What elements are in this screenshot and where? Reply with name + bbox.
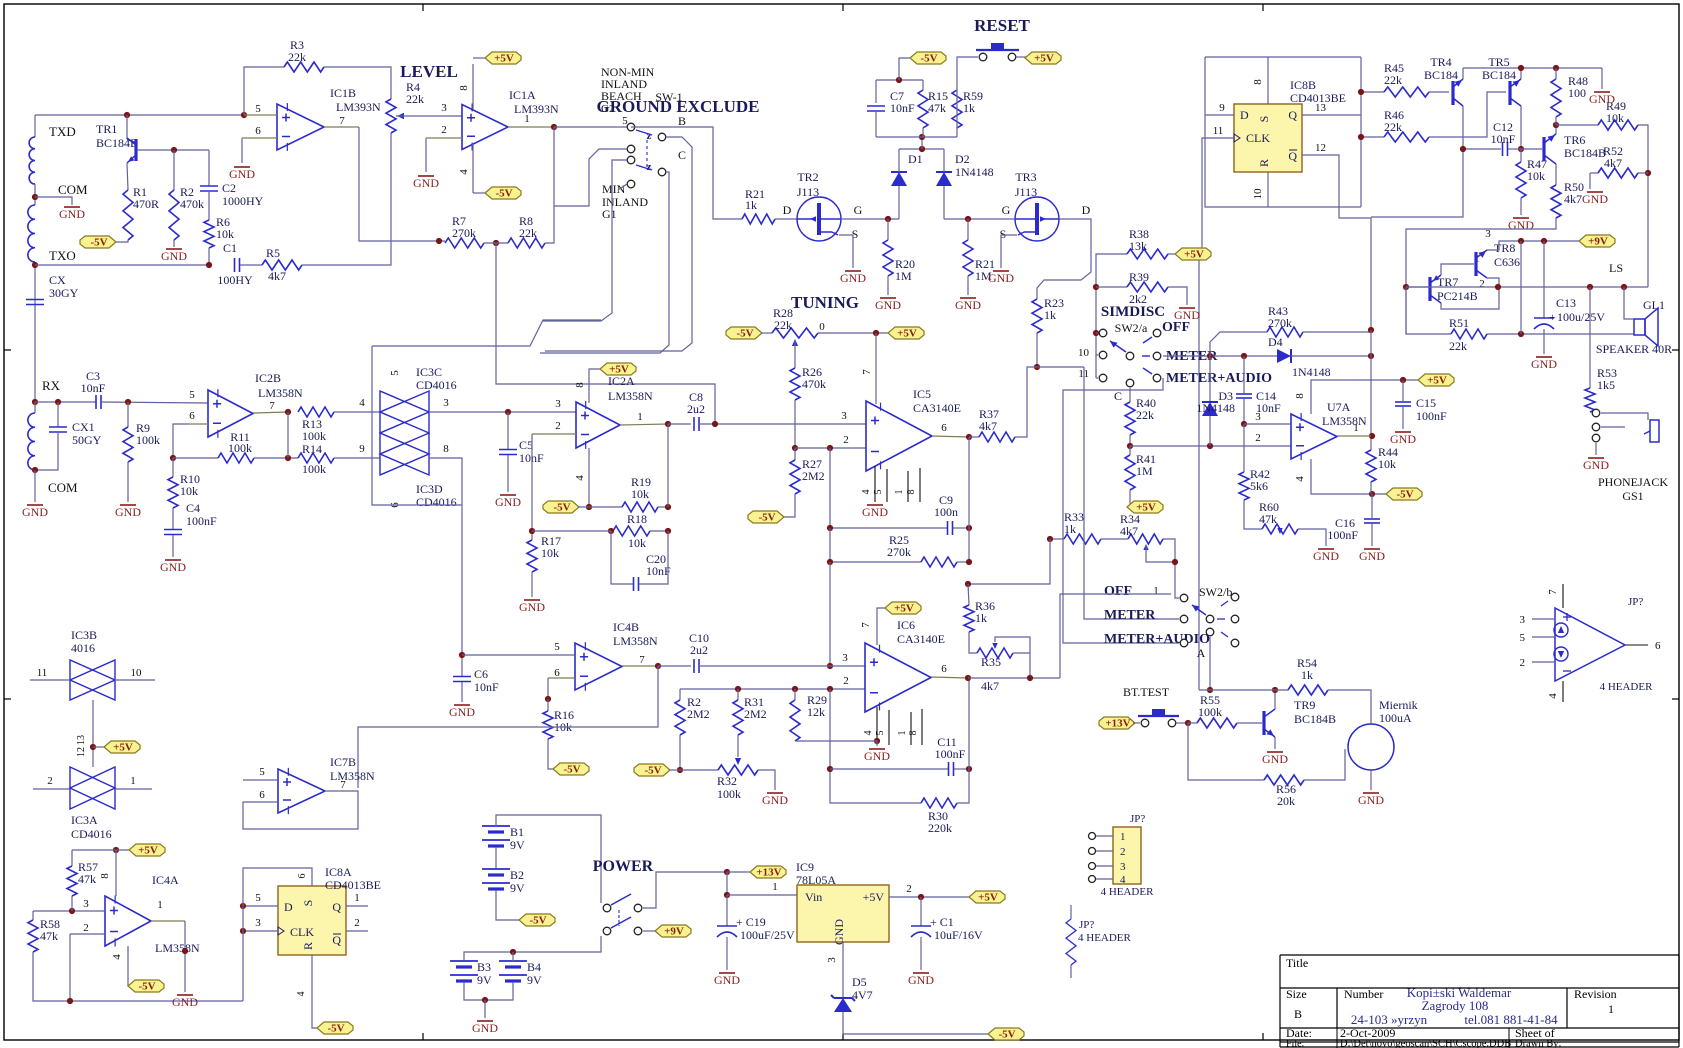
svg-text:5: 5 xyxy=(255,103,261,115)
svg-text:12: 12 xyxy=(76,747,87,757)
wire IC2A pin8 +5V xyxy=(589,369,601,403)
wire R31 to R32 wiper xyxy=(737,735,739,757)
svg-text:TXD: TXD xyxy=(49,124,76,139)
power flag +13V xyxy=(1099,717,1135,729)
svg-text:BC184: BC184 xyxy=(1424,68,1458,82)
svg-text:MIN: MIN xyxy=(602,182,626,196)
IC6 pins 4 5 1 8 xyxy=(876,707,878,741)
svg-text:D: D xyxy=(1240,108,1249,122)
svg-text:B4: B4 xyxy=(527,960,541,974)
svg-text:220k: 220k xyxy=(928,821,952,835)
svg-text:JP?: JP? xyxy=(1079,919,1094,931)
svg-text:C1: C1 xyxy=(223,241,237,255)
switch SW2a pole xyxy=(1126,352,1134,360)
svg-text:5: 5 xyxy=(389,370,401,376)
svg-text:11: 11 xyxy=(1213,125,1224,137)
capacitor C14 10nF xyxy=(1243,356,1245,393)
wire IC4B out xyxy=(622,665,658,667)
wire IC1A pin4 to -5V xyxy=(472,144,474,193)
resistor R17 10k xyxy=(531,531,533,540)
svg-text:C5: C5 xyxy=(519,438,533,452)
resistor R2 470k xyxy=(173,150,175,190)
wire -5V to node xyxy=(899,58,912,80)
svg-text:IC2A: IC2A xyxy=(608,374,635,388)
svg-text:100uF/25V: 100uF/25V xyxy=(740,928,795,942)
resistor R21 1M xyxy=(967,219,969,240)
resistor R1 470R xyxy=(123,190,133,240)
capacitor C6 10nF xyxy=(453,676,471,678)
IC IC8A CD4013BE xyxy=(278,886,346,955)
svg-text:470k: 470k xyxy=(180,197,204,211)
svg-text:100nF: 100nF xyxy=(186,514,217,528)
op-amp U7A LM358N xyxy=(1291,414,1337,459)
svg-text:1000HY: 1000HY xyxy=(222,194,264,208)
wire TR6 collector down xyxy=(1555,164,1557,185)
svg-text:12: 12 xyxy=(1315,142,1326,154)
wire COM row xyxy=(34,184,36,205)
svg-text:4: 4 xyxy=(359,397,365,409)
svg-text:47k: 47k xyxy=(78,872,96,886)
ground C19 xyxy=(726,937,728,970)
svg-text:7: 7 xyxy=(1547,589,1559,595)
junction xyxy=(529,528,535,534)
svg-text:5: 5 xyxy=(554,641,560,653)
junction xyxy=(171,147,177,153)
wire R50 bottom loop to TR7 base xyxy=(1406,218,1556,334)
wire TR3 source to GND xyxy=(1001,235,1017,268)
wire TR2 gate row xyxy=(841,218,899,220)
svg-text:LS: LS xyxy=(1609,261,1623,275)
wire R7R8 junction down to C8 node xyxy=(496,243,715,424)
wire R21 to TR2 drain xyxy=(775,218,797,220)
wire IC1B pin6 from GND xyxy=(241,138,243,163)
power flag +9V xyxy=(655,925,691,937)
wire IC5 output xyxy=(932,436,969,437)
svg-text:GND: GND xyxy=(714,973,740,987)
resistor R33 1k xyxy=(1050,538,1064,540)
svg-text:J113: J113 xyxy=(797,185,819,199)
power flag -5V xyxy=(1386,488,1422,500)
svg-text:GND: GND xyxy=(1358,793,1384,807)
svg-text:4: 4 xyxy=(574,475,586,481)
svg-text:1N4148: 1N4148 xyxy=(955,165,994,179)
wire IC4A pin4 -5V xyxy=(127,946,129,986)
capacitor C11 100nF xyxy=(830,768,948,770)
svg-text:270k: 270k xyxy=(887,545,911,559)
svg-text:5: 5 xyxy=(255,892,261,904)
svg-text:D4: D4 xyxy=(1268,335,1283,349)
svg-text:8: 8 xyxy=(908,731,919,736)
svg-text:-5V: -5V xyxy=(920,53,937,65)
wire TR8 collector to +9V row xyxy=(1487,241,1580,250)
svg-text:2M2: 2M2 xyxy=(687,707,710,721)
power flag -5V xyxy=(634,764,670,776)
power flag -5V xyxy=(543,501,579,513)
svg-text:C: C xyxy=(678,148,686,162)
svg-text:1: 1 xyxy=(772,881,778,893)
svg-text:Title: Title xyxy=(1286,956,1308,970)
svg-text:S: S xyxy=(301,900,315,907)
LS row xyxy=(1406,286,1648,288)
capacitor C2 1000HY xyxy=(208,150,210,186)
svg-text:2: 2 xyxy=(1255,432,1261,444)
wire R26 to minus row xyxy=(794,400,796,448)
resistor R8 22k xyxy=(508,238,545,248)
wire C10 to IC6 pin3 xyxy=(699,665,865,667)
capacitor C12 10nF xyxy=(1463,148,1501,150)
svg-text:4k7: 4k7 xyxy=(979,419,997,433)
svg-text:LM358N: LM358N xyxy=(613,634,658,648)
svg-text:22k: 22k xyxy=(1449,339,1467,353)
power flag -5V xyxy=(726,327,762,339)
svg-text:JP?: JP? xyxy=(1628,596,1643,608)
wire IC1A pin2 from GND xyxy=(425,138,427,172)
svg-text:100k: 100k xyxy=(1198,705,1222,719)
svg-text:4k7: 4k7 xyxy=(1564,192,1582,206)
svg-text:50GY: 50GY xyxy=(72,433,102,447)
svg-text:100nF: 100nF xyxy=(1416,409,1447,423)
svg-text:2: 2 xyxy=(906,883,912,895)
svg-text:-5V: -5V xyxy=(1396,489,1413,501)
ground top rail xyxy=(1601,68,1603,89)
resistor R54 1k xyxy=(1288,685,1328,695)
resistor R39 2k2 xyxy=(1096,286,1127,288)
svg-text:3: 3 xyxy=(441,102,447,114)
wire pole B down xyxy=(545,137,692,351)
resistor R2 2M2 xyxy=(679,689,681,700)
svg-text:OFF: OFF xyxy=(1162,320,1190,335)
svg-text:GND: GND xyxy=(1359,549,1385,563)
svg-text:LM358N: LM358N xyxy=(1322,414,1367,428)
svg-text:+13V: +13V xyxy=(756,867,781,879)
ground C5 xyxy=(507,455,509,492)
svg-text:2M2: 2M2 xyxy=(744,707,767,721)
svg-text:+ C1: + C1 xyxy=(930,915,954,929)
svg-text:9V: 9V xyxy=(477,973,492,987)
svg-text:10: 10 xyxy=(1078,347,1090,359)
wire feedback xyxy=(287,412,289,458)
wire R5 to R4 bottom xyxy=(302,133,391,265)
wire TR1 base node xyxy=(137,149,209,151)
svg-text:5: 5 xyxy=(875,731,886,736)
svg-text:100u/25V: 100u/25V xyxy=(1557,310,1605,324)
IC8B loop wiring xyxy=(1205,56,1361,58)
ground C13 xyxy=(1543,329,1545,354)
svg-text:4: 4 xyxy=(863,731,874,736)
ground COM xyxy=(64,206,80,208)
svg-text:24-103 »yrzyn: 24-103 »yrzyn xyxy=(1351,1012,1428,1027)
svg-text:D2: D2 xyxy=(955,152,970,166)
capacitor C13 100u/25V xyxy=(1543,241,1545,318)
svg-text:8: 8 xyxy=(574,382,586,388)
svg-text:10: 10 xyxy=(131,667,143,679)
svg-text:C4: C4 xyxy=(186,501,200,515)
wire R3 to R4 top xyxy=(324,67,391,99)
svg-text:10nF: 10nF xyxy=(474,680,499,694)
wire IC8A pin5 D xyxy=(243,905,278,907)
switch SW2a right contacts xyxy=(1153,329,1161,337)
svg-text:CX: CX xyxy=(49,273,66,287)
svg-text:+9V: +9V xyxy=(1588,236,1608,248)
junction xyxy=(965,216,971,222)
svg-text:4: 4 xyxy=(458,169,470,175)
svg-text:BC184B: BC184B xyxy=(1564,146,1606,160)
svg-text:470k: 470k xyxy=(802,377,826,391)
ground R32 xyxy=(767,792,783,794)
capacitor C8 2u2 xyxy=(693,417,695,431)
svg-text:LM358N: LM358N xyxy=(155,941,200,955)
svg-text:-5V: -5V xyxy=(736,328,753,340)
svg-text:Size: Size xyxy=(1286,987,1307,1001)
wire IC2A output xyxy=(620,424,668,425)
svg-text:z: z xyxy=(647,161,652,173)
resistor R6 10k xyxy=(208,191,210,220)
svg-text:7: 7 xyxy=(861,369,873,375)
power flag +5V xyxy=(600,363,636,375)
capacitor C1 10uF/16V xyxy=(920,897,922,926)
resistor R36 1k xyxy=(968,584,969,605)
resistor R7 270k xyxy=(358,240,360,242)
svg-text:4 HEADER: 4 HEADER xyxy=(1078,932,1132,944)
wire minus chain down to IC6 pin3 xyxy=(829,562,831,666)
svg-text:270k: 270k xyxy=(1268,316,1292,330)
ground C1 xyxy=(920,937,922,970)
svg-text:R39: R39 xyxy=(1129,270,1149,284)
wire IC3C output pin3 xyxy=(429,411,576,413)
svg-text:+5V: +5V xyxy=(1034,53,1054,65)
svg-text:G1: G1 xyxy=(602,207,617,221)
wire R23 down xyxy=(1036,333,1038,367)
svg-text:GND: GND xyxy=(832,919,846,945)
wire R39 to GND xyxy=(1168,287,1187,305)
svg-text:100k: 100k xyxy=(302,462,326,476)
svg-text:R14: R14 xyxy=(302,442,322,456)
wire LS to R53 xyxy=(1589,287,1591,388)
svg-text:C2: C2 xyxy=(222,181,236,195)
svg-text:10k: 10k xyxy=(1378,457,1396,471)
wire +5V to IC4A pin8 xyxy=(115,850,117,896)
switch SW-1 contact G1 xyxy=(627,180,635,188)
wire TR9 emitter to GND xyxy=(1274,737,1276,749)
title block xyxy=(1280,954,1679,956)
wire R34 wiper down xyxy=(1146,545,1175,562)
svg-text:CA3140E: CA3140E xyxy=(897,632,945,646)
switch POWER xyxy=(603,904,611,912)
svg-text:22k: 22k xyxy=(774,318,792,332)
svg-text:IC4A: IC4A xyxy=(152,873,179,887)
svg-text:IC3D: IC3D xyxy=(416,482,443,496)
wire long verticals to SW2b xyxy=(1084,367,1179,619)
ground R9 xyxy=(127,462,129,502)
svg-text:IC9: IC9 xyxy=(796,860,814,874)
wire R21 input from IC1A net xyxy=(631,127,742,219)
resistor R48 100 xyxy=(1555,68,1557,79)
svg-text:R51: R51 xyxy=(1449,316,1469,330)
svg-text:TR9: TR9 xyxy=(1294,698,1315,712)
svg-text:2: 2 xyxy=(1520,657,1526,669)
wire IC4B pin6 xyxy=(548,677,575,679)
svg-text:GND: GND xyxy=(1390,432,1416,446)
svg-text:2: 2 xyxy=(1120,846,1126,858)
op-amp IC6 CA3140E xyxy=(865,643,931,712)
pushbutton BT.TEST xyxy=(1133,722,1140,724)
svg-text:6: 6 xyxy=(255,125,261,137)
wire TR3 gate row xyxy=(944,218,1015,220)
svg-text:COM: COM xyxy=(48,480,78,495)
svg-text:Q: Q xyxy=(332,900,341,914)
svg-text:10k: 10k xyxy=(631,487,649,501)
svg-text:GND: GND xyxy=(1262,752,1288,766)
svg-text:100nF: 100nF xyxy=(935,747,966,761)
svg-text:PC214B: PC214B xyxy=(1437,289,1478,303)
node top-left row to IC1B pin5 xyxy=(35,114,244,116)
junction xyxy=(827,445,833,451)
wire R56 right up xyxy=(1304,749,1345,780)
svg-text:4: 4 xyxy=(861,490,872,495)
wire IC2B pin6 xyxy=(188,423,208,425)
resistor R42 5k6 xyxy=(1243,424,1245,472)
svg-text:Q: Q xyxy=(1288,149,1297,163)
svg-text:+5V: +5V xyxy=(494,53,514,65)
svg-text:1k: 1k xyxy=(1064,522,1076,536)
wire IC9 out to +5V xyxy=(889,896,970,898)
svg-text:LEVEL: LEVEL xyxy=(400,62,458,81)
svg-text:12k: 12k xyxy=(807,705,825,719)
svg-text:6: 6 xyxy=(1655,640,1661,652)
svg-text:10k: 10k xyxy=(1606,111,1624,125)
resistor R57 47k xyxy=(71,850,73,866)
wire C3 to IC2B pin5 xyxy=(101,402,208,403)
svg-text:LM393N: LM393N xyxy=(336,100,381,114)
svg-text:C: C xyxy=(1114,389,1122,403)
svg-text:-5V: -5V xyxy=(998,1029,1015,1041)
svg-text:Revision: Revision xyxy=(1574,987,1617,1001)
wire TR8 emitter to LS row xyxy=(1487,278,1499,287)
resistor R38 13k xyxy=(1127,249,1168,259)
wire U7A pin4 -5V row xyxy=(1311,459,1388,494)
wire bottom rail xyxy=(876,136,957,138)
svg-text:10nF: 10nF xyxy=(646,564,671,578)
svg-text:+5V: +5V xyxy=(1427,375,1447,387)
svg-text:+5V: +5V xyxy=(863,890,885,904)
resistor R31 2M2 xyxy=(737,689,739,700)
svg-text:GND: GND xyxy=(519,600,545,614)
svg-text:SW2/a: SW2/a xyxy=(1115,321,1148,335)
wire IC6 output xyxy=(931,677,968,678)
svg-text:D1: D1 xyxy=(908,152,923,166)
svg-text:4: 4 xyxy=(111,954,123,960)
power flag +5V xyxy=(888,327,924,339)
wire D1 D2 common xyxy=(899,148,944,150)
svg-text:OFF: OFF xyxy=(1104,584,1132,599)
svg-text:C636: C636 xyxy=(1494,255,1520,269)
svg-text:10nF: 10nF xyxy=(81,381,106,395)
svg-text:7: 7 xyxy=(860,622,872,628)
svg-text:GND: GND xyxy=(1508,218,1534,232)
svg-text:100HY: 100HY xyxy=(217,273,253,287)
svg-text:22k: 22k xyxy=(406,92,424,106)
svg-text:8: 8 xyxy=(99,873,111,879)
wire D5 to -5V xyxy=(843,1012,989,1034)
wire left rail TXO to RX xyxy=(34,262,36,402)
svg-text:1k: 1k xyxy=(745,198,757,212)
svg-text:+5V: +5V xyxy=(138,845,158,857)
wire IC4B feedback down xyxy=(358,666,658,788)
switch SW-1 contact pin5 xyxy=(627,123,635,131)
wire IC3A pin1 xyxy=(115,788,152,790)
resistor R9 100k xyxy=(127,402,129,427)
svg-text:100k: 100k xyxy=(717,787,741,801)
wire R37 right up and over xyxy=(1015,367,1084,437)
wire R27 to -5V xyxy=(783,494,795,517)
svg-text:8: 8 xyxy=(443,443,449,455)
svg-text:-5V: -5V xyxy=(563,764,580,776)
ground C15 xyxy=(1402,407,1404,429)
svg-text:1: 1 xyxy=(157,899,163,911)
wire IC8B pin12 Qbar xyxy=(1302,155,1371,330)
svg-text:IC7B: IC7B xyxy=(330,755,356,769)
svg-text:+ C19: + C19 xyxy=(736,915,766,929)
wire R49 right down xyxy=(1638,125,1648,287)
svg-text:R5: R5 xyxy=(266,246,280,260)
svg-text:TR8: TR8 xyxy=(1494,241,1515,255)
svg-text:1k: 1k xyxy=(1301,668,1313,682)
svg-text:1N4148: 1N4148 xyxy=(1292,365,1331,379)
power flag -5V xyxy=(988,1028,1024,1040)
svg-text:PHONEJACK: PHONEJACK xyxy=(1598,475,1668,489)
resistor R45 22k xyxy=(1361,91,1384,93)
svg-text:1k: 1k xyxy=(963,101,975,115)
wire node down to Vin row xyxy=(726,872,728,895)
wire net-B down xyxy=(830,689,921,803)
wire IC8B pin11 CLK long net xyxy=(1202,138,1234,254)
wire IC5 minus row xyxy=(795,447,866,449)
svg-text:GND: GND xyxy=(762,793,788,807)
resistor R14 100k xyxy=(298,453,334,463)
analog switch IC3C CD4016 xyxy=(380,391,429,433)
resistor R30 220k xyxy=(921,798,957,808)
wire R33 left net down xyxy=(968,539,1050,584)
ground C16 xyxy=(1371,524,1373,546)
wire TR6 emitter up xyxy=(1555,125,1557,134)
analog switch IC3A CD4016 xyxy=(70,767,115,809)
svg-text:2: 2 xyxy=(843,675,849,687)
svg-text:2: 2 xyxy=(83,922,89,934)
battery B3 9V xyxy=(450,960,478,962)
svg-text:GND: GND xyxy=(161,249,187,263)
diode D3 1N4148 xyxy=(1209,356,1211,402)
svg-text:IC3B: IC3B xyxy=(71,628,97,642)
wire R11 to R14 xyxy=(254,457,298,459)
switch SW2b A terminal xyxy=(1206,628,1214,636)
resistor R15 47k xyxy=(922,80,924,90)
wire TXO row xyxy=(35,264,209,266)
capacitor C4 100nF xyxy=(172,508,174,529)
resistor R50 4k7 xyxy=(1551,185,1561,218)
svg-text:1k: 1k xyxy=(1044,308,1056,322)
junction xyxy=(170,455,176,461)
svg-text:7: 7 xyxy=(339,115,345,127)
svg-text:CX1: CX1 xyxy=(72,420,95,434)
svg-text:METER+AUDIO: METER+AUDIO xyxy=(1166,371,1272,386)
resistor R29 12k xyxy=(794,689,796,700)
diode D4 1N4148 xyxy=(1263,355,1277,357)
svg-text:LM358N: LM358N xyxy=(258,386,303,400)
wire R4 wiper to IC1A pin3 xyxy=(396,115,462,117)
battery B1 9V xyxy=(482,825,510,827)
svg-text:4 HEADER: 4 HEADER xyxy=(1600,681,1654,693)
capacitor C7 10nF xyxy=(867,105,885,107)
